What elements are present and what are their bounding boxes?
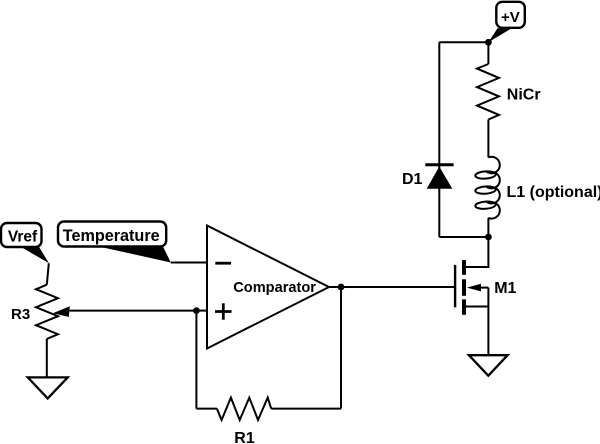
- svg-text:Temperature: Temperature: [63, 227, 160, 245]
- transistor M1: [455, 260, 488, 315]
- diode D1: [425, 165, 453, 189]
- +V callout pointer: [488, 28, 510, 42]
- ground below M1: [469, 355, 508, 376]
- svg-text:R3: R3: [11, 306, 30, 323]
- wire: feedback right vertical: [340, 287, 342, 409]
- Vref callout pointer: [20, 247, 49, 264]
- wire: junction down to M1 drain: [466, 237, 488, 267]
- plus input symbol: [215, 303, 232, 319]
- wire: bottom junction to diode branch: [439, 236, 488, 238]
- minus input symbol: [215, 262, 231, 265]
- wire: R3 to ground: [46, 339, 48, 378]
- Temperature callout pointer: [102, 247, 171, 263]
- wire: feedback bottom right: [271, 408, 341, 410]
- net label Temperature: [58, 222, 166, 247]
- svg-text:M1: M1: [494, 280, 516, 297]
- resistor R1: [217, 398, 271, 420]
- svg-text:R1: R1: [234, 430, 255, 444]
- node: output junction dot: [338, 284, 345, 291]
- inductor L1: [475, 157, 500, 219]
- wire: feedback bottom left: [196, 408, 217, 410]
- node: L1 bottom junction dot: [485, 234, 492, 241]
- wire: minus input stub from Temperature: [171, 262, 208, 264]
- wire: diode branch vertical: [438, 42, 440, 237]
- node: plus input junction dot: [193, 307, 200, 314]
- wire: +V junction left to diode branch: [439, 41, 488, 43]
- wire: plus input stub: [196, 310, 208, 312]
- potentiometer R3: [36, 285, 58, 339]
- op-amp U1 comparator: [207, 226, 329, 349]
- net label Vref: [1, 223, 42, 247]
- R3 wiper arrow: [53, 306, 70, 317]
- wire: feedback left vertical: [195, 311, 197, 409]
- wire: comparator output to M1 gate: [329, 286, 455, 288]
- svg-text:+V: +V: [501, 9, 520, 26]
- wire: NiCr to L1: [487, 120, 489, 158]
- node: +V junction dot: [485, 39, 492, 46]
- wire: Vref to R3: [47, 263, 49, 284]
- svg-text:D1: D1: [402, 171, 423, 188]
- svg-text:L1 (optional): L1 (optional): [507, 184, 600, 201]
- net label +V: [496, 2, 525, 28]
- wire: +V junction down to NiCr: [487, 42, 489, 64]
- ground below R3: [28, 377, 68, 398]
- svg-text:Vref: Vref: [8, 228, 38, 245]
- R3 wiper wire: [70, 310, 197, 312]
- svg-text:NiCr: NiCr: [507, 87, 541, 104]
- wire: L1 to bottom junction: [487, 218, 489, 237]
- resistor NiCr: [477, 64, 499, 120]
- wire: M1 source to ground: [487, 307, 489, 356]
- svg-text:Comparator: Comparator: [233, 280, 316, 296]
